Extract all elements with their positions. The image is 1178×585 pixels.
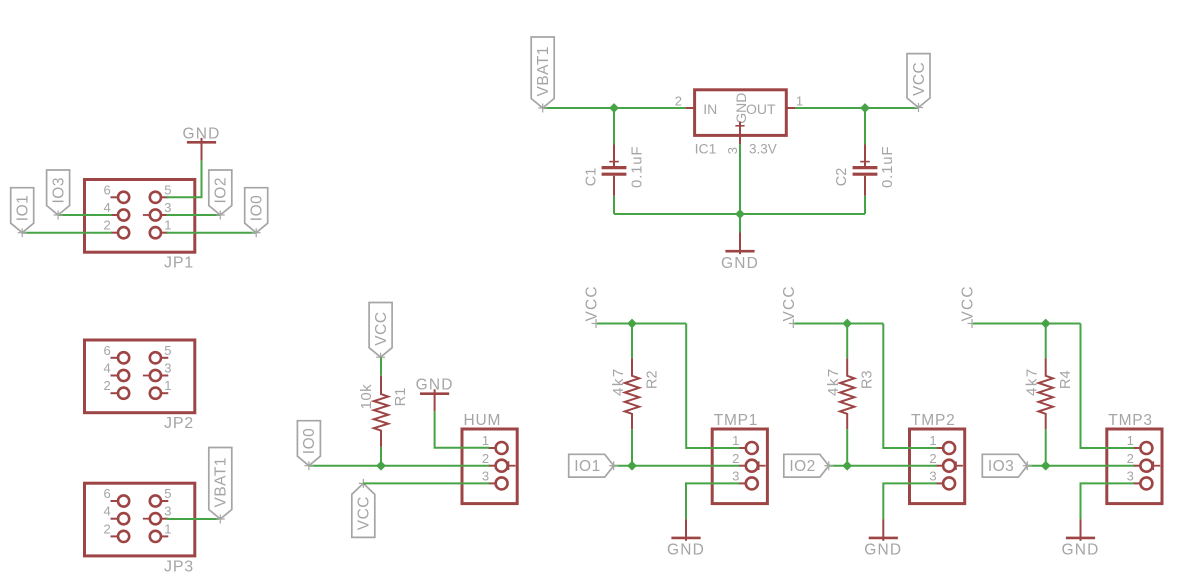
svg-text:IO3: IO3 [50,177,67,203]
svg-text:2: 2 [732,451,739,466]
svg-text:IO1: IO1 [15,195,32,221]
svg-text:2: 2 [482,451,489,466]
svg-text:IO2: IO2 [213,177,230,203]
svg-text:1: 1 [1127,433,1134,448]
svg-text:2: 2 [103,521,110,536]
svg-text:3: 3 [732,469,739,484]
svg-text:4: 4 [103,504,110,519]
svg-text:6: 6 [103,486,110,501]
svg-text:VCC: VCC [781,285,798,321]
svg-text:2: 2 [675,94,682,109]
svg-text:GND: GND [182,125,220,142]
svg-text:R4: R4 [1058,370,1074,389]
svg-text:OUT: OUT [746,101,776,117]
svg-text:JP2: JP2 [164,415,194,432]
svg-text:R1: R1 [393,388,409,407]
svg-text:GND: GND [864,542,902,559]
svg-text:IC1: IC1 [695,141,717,157]
svg-text:IO2: IO2 [789,458,815,475]
svg-text:2: 2 [103,218,110,233]
svg-text:3: 3 [929,469,936,484]
svg-text:GND: GND [1061,542,1099,559]
svg-text:TMP3: TMP3 [1108,412,1153,429]
svg-text:3: 3 [482,469,489,484]
svg-text:IN: IN [703,101,717,117]
svg-text:3: 3 [164,504,171,519]
svg-text:6: 6 [103,343,110,358]
svg-text:6: 6 [103,182,110,197]
svg-text:IO3: IO3 [988,458,1014,475]
svg-text:GND: GND [416,377,454,394]
svg-text:HUM: HUM [464,412,502,429]
svg-text:2: 2 [929,451,936,466]
svg-text:4: 4 [103,200,110,215]
svg-text:1: 1 [164,521,171,536]
svg-text:2: 2 [1127,451,1134,466]
svg-text:JP1: JP1 [164,255,194,272]
svg-text:R2: R2 [644,370,660,389]
svg-text:10k: 10k [358,384,375,410]
svg-text:VCC: VCC [356,496,373,530]
svg-text:5: 5 [164,486,171,501]
svg-text:IO1: IO1 [574,458,600,475]
svg-text:1: 1 [796,94,803,109]
svg-text:4k7: 4k7 [1024,367,1041,396]
svg-text:1: 1 [732,433,739,448]
svg-text:4: 4 [103,361,110,376]
svg-text:3: 3 [1127,469,1134,484]
svg-text:C2: C2 [834,168,850,187]
svg-text:VCC: VCC [911,62,928,96]
svg-text:JP3: JP3 [164,558,194,575]
svg-text:4k7: 4k7 [825,367,842,396]
svg-text:1: 1 [482,433,489,448]
svg-text:5: 5 [164,343,171,358]
svg-text:1: 1 [164,218,171,233]
svg-text:1: 1 [929,433,936,448]
svg-text:GND: GND [721,255,759,272]
svg-text:4k7: 4k7 [610,367,627,396]
svg-text:0.1uF: 0.1uF [629,146,646,188]
svg-text:C1: C1 [584,168,600,187]
svg-text:VBAT1: VBAT1 [535,46,552,96]
svg-text:3: 3 [164,361,171,376]
svg-text:VCC: VCC [373,311,390,345]
svg-text:3: 3 [164,200,171,215]
svg-text:GND: GND [667,542,705,559]
svg-text:3.3V: 3.3V [749,142,777,157]
svg-text:3: 3 [725,147,740,154]
svg-text:5: 5 [164,182,171,197]
svg-text:1: 1 [164,378,171,393]
svg-text:R3: R3 [860,370,876,389]
svg-text:IO0: IO0 [249,195,266,221]
svg-text:VBAT1: VBAT1 [213,457,230,507]
svg-text:VCC: VCC [584,285,601,321]
svg-text:2: 2 [103,378,110,393]
svg-text:0.1uF: 0.1uF [879,146,896,188]
svg-text:TMP1: TMP1 [714,412,759,429]
svg-text:IO0: IO0 [301,428,318,454]
svg-text:VCC: VCC [960,285,977,321]
svg-text:GND: GND [733,93,749,124]
svg-text:TMP2: TMP2 [911,412,956,429]
